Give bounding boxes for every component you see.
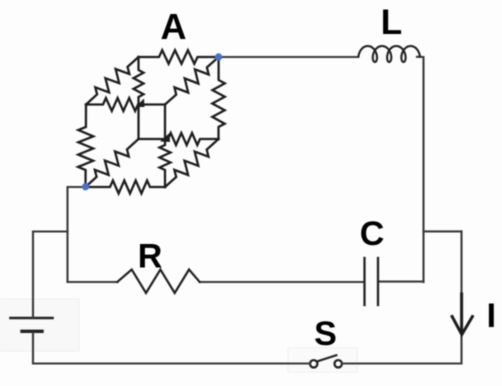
node terminal bottom-left (82, 183, 89, 190)
resistor cube edge back-bottom (139, 133, 219, 145)
resistor cube edge front-right (160, 105, 171, 188)
resistor cube edge top-left diagonal (86, 57, 139, 105)
resistor cube edge back-left (134, 57, 144, 139)
resistor cube edge bottom-right diagonal (165, 139, 219, 187)
wire junction mark (160, 133, 170, 142)
switch S contact left (288, 348, 357, 372)
resistor cube edge bottom-left diagonal (86, 139, 139, 187)
svg-text:R: R (138, 238, 163, 276)
wire junction mark (136, 99, 145, 108)
resistor cube edge front-left (78, 105, 93, 188)
capacitor C left plate (363, 258, 365, 305)
svg-text:L: L (381, 3, 402, 42)
wire (68, 186, 84, 188)
wire (417, 57, 424, 232)
wire (424, 230, 462, 232)
wire (68, 281, 118, 283)
svg-text:A: A (161, 6, 187, 47)
wire (422, 231, 424, 282)
wire (460, 231, 462, 363)
switch S lever (317, 355, 337, 361)
resistor cube edge back-top (139, 50, 219, 64)
node terminal top-right (215, 53, 222, 60)
svg-text:I: I (487, 297, 496, 335)
svg-text:S: S (314, 315, 337, 353)
wire (33, 230, 68, 232)
resistor cube edge front-top (86, 98, 165, 111)
wire (200, 281, 364, 283)
battery short plate (22, 330, 42, 333)
wire (33, 333, 310, 364)
switch S contact right (335, 360, 342, 367)
wire (379, 281, 424, 283)
wire (66, 187, 68, 282)
resistor R (117, 270, 199, 294)
wire (219, 56, 358, 58)
resistor cube edge top-right diagonal (165, 57, 219, 105)
current arrow (452, 294, 472, 335)
inductor L (359, 46, 420, 62)
wire (32, 232, 34, 318)
battery V1 (0, 299, 79, 351)
svg-text:C: C (360, 215, 385, 253)
resistor cube edge back-right (212, 57, 225, 139)
wire (342, 362, 462, 364)
resistor cube edge front-bottom (86, 181, 166, 194)
capacitor C right plate (377, 258, 379, 305)
